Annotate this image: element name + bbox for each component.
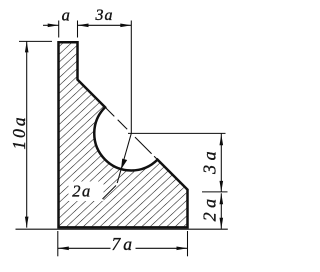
left dimension 10a: extension lines	[16, 41, 228, 229]
bottom dimension 7a: line with arrows	[58, 247, 188, 251]
label 10a	[9, 114, 29, 149]
right dimension 3a: lower extension line	[202, 191, 228, 193]
top dimension a: left outside arrow	[43, 24, 59, 28]
svg-text:a: a	[62, 5, 70, 24]
svg-text:2a: 2a	[72, 182, 92, 201]
white patch behind 2a radius label	[69, 182, 104, 202]
label 3a right	[200, 147, 220, 175]
svg-text:2a: 2a	[200, 194, 220, 221]
label a	[62, 5, 70, 24]
svg-text:10a: 10a	[9, 114, 29, 149]
bottom dimension 7a: extension lines	[58, 231, 188, 256]
top dimension a: extension lines	[59, 21, 78, 38]
label 2a right	[200, 194, 220, 221]
circle centre horizontal line (also extension of right 3a)	[128, 132, 226, 134]
right dimension 2a: line with arrows	[220, 193, 224, 229]
left dimension 10a: line with arrows	[25, 41, 29, 227]
radius leader line	[103, 186, 117, 200]
top dimension 3a: line with arrows	[78, 24, 132, 28]
radius arrow from centre to arc	[117, 133, 131, 183]
label 7a	[112, 234, 136, 254]
label 3a	[95, 7, 114, 24]
right dimension 3a: line with arrows	[220, 133, 224, 192]
section body outline with semicircular notch	[59, 42, 188, 227]
svg-text:3a: 3a	[200, 147, 220, 175]
radius label 2a	[72, 182, 92, 201]
svg-text:3a: 3a	[95, 7, 114, 24]
45 degree centre line through notch	[105, 107, 157, 160]
svg-text:7a: 7a	[112, 234, 136, 254]
circle centre vertical line (also extension of top 3a)	[130, 21, 132, 134]
